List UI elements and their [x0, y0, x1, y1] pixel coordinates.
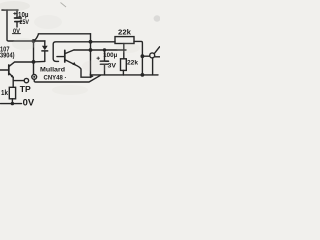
LED D1 anode wire [44, 41, 46, 45]
wire: left supply drop [7, 10, 45, 41]
wire: R2 bottom tap to R3 [123, 44, 125, 59]
svg-text:1k: 1k [1, 88, 9, 97]
wire: R1 to 0V rail [11, 99, 13, 104]
svg-text:Mullard: Mullard [40, 67, 65, 74]
transistor Q1 collector wire [9, 62, 33, 66]
wire: +V rail to right [38, 33, 90, 35]
svg-text:22k: 22k [118, 29, 131, 36]
resistor R2 22k horizontal [115, 37, 134, 44]
junction on 0V rail [11, 102, 14, 105]
transistor Q1 base lead [0, 69, 9, 71]
wire: TP branch [13, 80, 24, 82]
wire: 0V rail bottom left [1, 103, 22, 105]
junction node B [32, 60, 36, 64]
transistor Q1 emitter with arrow [9, 73, 13, 77]
wire: terminal drop to rail [152, 58, 154, 75]
wire: R3 to bottom rail [122, 70, 124, 75]
svg-text:TP: TP [20, 84, 31, 94]
junction dot on box top line [89, 40, 93, 44]
phototransistor emitter with arrow [65, 60, 90, 77]
wire: emitter down to R1 [12, 78, 14, 88]
capacitor C2 100u plates [100, 60, 108, 62]
terminal output [150, 53, 155, 58]
scan scratch mark top middle [61, 3, 67, 8]
phototransistor base lead [57, 56, 65, 58]
junction dot collector/drop [89, 48, 93, 52]
capacitor C1 10u electrolytic [14, 10, 22, 27]
svg-text:25V: 25V [20, 19, 30, 26]
wire: node A down to node B [33, 41, 35, 75]
wire: riser from node A to +V rail [34, 34, 39, 40]
LED D1 (CNY48 input diode) [42, 46, 48, 62]
terminal TP [24, 78, 28, 82]
wire: output stub [142, 55, 149, 57]
optocoupler U1 CNY48 box outline [53, 42, 115, 62]
wire: edge exit horizontal [155, 56, 160, 58]
wire: LED cathode to collector node [34, 60, 45, 63]
phototransistor base bar [64, 50, 66, 62]
svg-text:100µ: 100µ [103, 52, 117, 59]
phototransistor collector diagonal [65, 50, 74, 54]
wire: R2 right lead and output drop [134, 41, 142, 75]
junction dot cap branch [103, 48, 106, 51]
svg-text:22k: 22k [127, 60, 138, 67]
svg-text:CNY48 ·: CNY48 · [44, 75, 67, 82]
scan smudge top right [154, 15, 161, 21]
wire: bottom right rail [91, 74, 158, 76]
resistor R1 1k [9, 87, 15, 99]
wire: edge exit diagonal [154, 47, 159, 54]
junction node A [32, 39, 36, 43]
wire: collector node line [74, 49, 126, 51]
wire: +V rail drop at x90 [90, 34, 92, 78]
wire: +V top rail [2, 9, 18, 11]
resistor R3 22k vertical [121, 59, 127, 71]
svg-text:0V: 0V [23, 98, 34, 108]
paper mottling (scan shading) [0, 1, 140, 95]
svg-text:3904): 3904) [0, 52, 15, 59]
junction dot on bottom rail [141, 73, 145, 77]
feedthrough terminal on LED cathode drop [32, 75, 37, 80]
wire: below feedthrough down and right (bottom mid line) [34, 75, 100, 82]
emitter arrow blob at rail start [90, 74, 94, 79]
junction dot output node [141, 54, 145, 58]
svg-text:10µ: 10µ [18, 12, 29, 19]
capacitor C2 100u wire top [104, 50, 106, 60]
transistor Q1 base bar [8, 65, 10, 75]
